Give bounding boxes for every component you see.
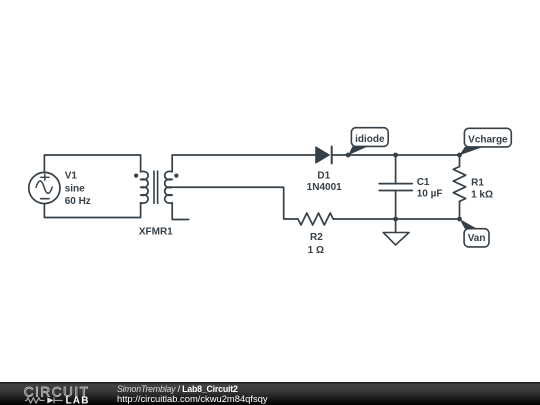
label R2 / 1 ohm [308, 232, 324, 256]
flag Van [460, 219, 490, 247]
svg-text:60 Hz: 60 Hz [65, 196, 91, 207]
wire secondary bottom stub [172, 203, 189, 220]
transformer XFMR1 [134, 171, 178, 203]
CircuitLab logo [24, 385, 90, 405]
voltage source V1 [29, 172, 60, 203]
svg-text:1 kΩ: 1 kΩ [471, 190, 493, 201]
svg-text:Van: Van [468, 233, 486, 244]
wire bottom rail R2 to Van node [333, 218, 459, 220]
svg-text:10 µF: 10 µF [417, 188, 443, 199]
wire C1 top lead [395, 155, 397, 184]
wire bottom of primary loop [44, 203, 140, 218]
wire R1 bottom lead [459, 201, 461, 219]
svg-text:1 Ω: 1 Ω [308, 245, 324, 256]
svg-text:LAB: LAB [66, 396, 90, 405]
label V1 / sine / 60 Hz [65, 171, 91, 207]
flag idiode [348, 128, 388, 156]
wire R1 top lead [459, 155, 461, 167]
node Van [457, 217, 462, 222]
svg-text:C1: C1 [417, 177, 430, 188]
footer bar [0, 382, 540, 405]
footer credit text [117, 384, 268, 404]
svg-text:sine: sine [65, 184, 85, 195]
node junction C1 top [393, 153, 398, 158]
node junction C1 bottom / ground [393, 217, 398, 222]
wire C1 bottom lead [395, 191, 397, 220]
node idiode measurement point [346, 153, 351, 158]
svg-text:1N4001: 1N4001 [307, 182, 342, 193]
svg-text:XFMR1: XFMR1 [139, 227, 173, 238]
node Vcharge [457, 153, 462, 158]
diode D1 [316, 147, 332, 164]
label D1 / 1N4001 [307, 171, 342, 193]
svg-text:idiode: idiode [355, 134, 385, 145]
label R1 / 1 kohm [471, 178, 493, 201]
capacitor C1 [379, 184, 412, 191]
wire top of primary loop [44, 155, 140, 172]
flag Vcharge [460, 128, 512, 155]
wire diode cathode to Vcharge node [332, 154, 460, 156]
svg-text:V1: V1 [65, 171, 78, 182]
wire secondary top to diode anode [172, 155, 316, 172]
svg-text:Vcharge: Vcharge [468, 135, 508, 146]
label C1 / 10 uF [417, 177, 443, 200]
wire secondary center tap to R2 [172, 187, 298, 219]
resistor R2 [298, 213, 333, 225]
svg-text:D1: D1 [317, 171, 330, 182]
svg-text:R2: R2 [310, 232, 323, 243]
svg-text:http://circuitlab.com/ckwu2m84: http://circuitlab.com/ckwu2m84qfsqy [117, 393, 268, 404]
resistor R1 [453, 167, 465, 202]
ground [383, 219, 409, 245]
svg-text:R1: R1 [471, 178, 484, 189]
